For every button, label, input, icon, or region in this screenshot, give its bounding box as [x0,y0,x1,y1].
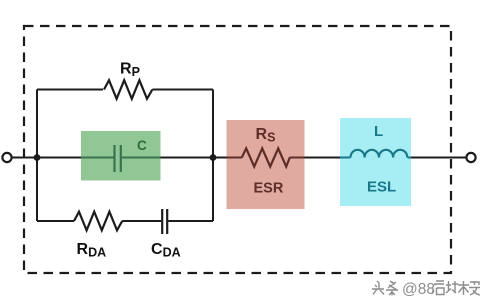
wire top branch right lead [152,89,213,91]
inductor L [351,150,408,158]
wire right rail [212,90,214,222]
svg-text:@88: @88 [402,281,435,298]
highlight box (cyan) around L / ESL [340,118,411,206]
wire inside cyan box right lead [408,157,412,159]
svg-text:L: L [374,123,383,140]
wire between RDA and CDA [122,220,161,222]
terminal T1 (left) [2,153,11,162]
wire left rail [36,90,38,222]
wire node B to ESR box [213,157,227,159]
wire inside green box to capacitor C [81,157,114,159]
wire top branch left lead [37,89,103,91]
node B junction dot [210,154,217,161]
wire middle branch left lead [37,157,81,159]
capacitor CDA plates [161,209,163,234]
resistor RS [242,148,290,166]
wire ESR box to ESL box [305,157,341,159]
wire bottom branch right lead [168,220,213,222]
wire terminal T1 to node A [12,157,37,159]
svg-text:RP: RP [120,61,140,80]
svg-text:RDA: RDA [77,241,107,260]
svg-text:ESR: ESR [254,181,284,197]
terminal T2 (right) [466,153,475,162]
wire inside cyan box left lead [340,157,351,159]
wire ESL box to terminal T2 [411,157,466,159]
watermark 头条@88后技术宅 [373,282,480,297]
capacitor C plates [113,145,115,172]
wire inside pink box right lead [290,157,305,159]
dashed enclosure border [24,26,451,273]
svg-text:CDA: CDA [151,241,181,260]
node A junction dot [34,154,41,161]
highlight box (pink) around RS / ESR [227,120,305,209]
svg-text:C: C [137,138,147,153]
wire middle branch right lead [161,157,214,159]
resistor RDA [74,212,122,231]
svg-text:ESL: ESL [367,179,396,196]
wire capacitor C to green box edge [122,157,161,159]
wire inside pink box left lead [227,157,243,159]
wire bottom branch left lead [37,220,74,222]
highlight box (green) around C [81,131,161,181]
resistor RP [104,80,152,99]
